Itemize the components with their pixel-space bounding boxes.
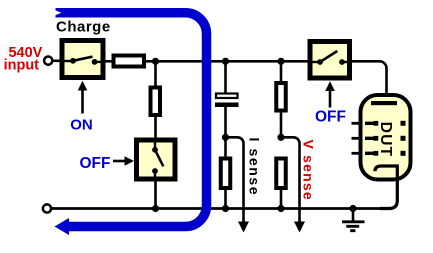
wire S3 to tube anode — [352, 61, 387, 102]
ON label with up arrow — [70, 81, 93, 134]
svg-text:I sense: I sense — [247, 138, 263, 197]
wire node A down to R2 — [154, 61, 157, 86]
junction node A — [152, 58, 159, 65]
ground junction — [349, 205, 356, 212]
tube cathode with lead to bottom rail — [375, 166, 397, 209]
switch S3 plate supply (box) — [310, 42, 350, 79]
resistor R1 horizontal — [114, 56, 145, 67]
svg-text:DUT: DUT — [377, 122, 394, 157]
OFF label with right arrow — [80, 155, 135, 172]
wire C1 down to I sense node — [224, 107, 227, 209]
svg-text:Charge: Charge — [56, 19, 111, 36]
junction on top rail at capacitor branch — [222, 58, 229, 65]
wire S2 down to bottom rail — [154, 179, 157, 209]
I sense tap wire with down arrow — [226, 137, 250, 232]
top rail wire from charge switch to right OFF switch — [97, 60, 309, 63]
wire R4 to node — [280, 111, 283, 139]
junction top rail at V sense branch — [277, 58, 284, 65]
tube grid row 2 — [352, 136, 406, 141]
junction on bottom rail under S2 — [152, 205, 159, 212]
bottom rail wire — [51, 207, 391, 210]
junction bottom rail under V branch — [277, 205, 284, 212]
resistor R5 divider bottom — [276, 159, 286, 189]
switch S1 charge (box) — [62, 41, 103, 78]
svg-text:OFF: OFF — [80, 155, 111, 172]
ground symbol — [342, 209, 365, 231]
svg-text:OFF: OFF — [315, 109, 346, 126]
OFF label with up arrow (plate switch) — [315, 81, 346, 125]
resistor R2 vertical — [151, 88, 161, 116]
tube V1 envelope — [361, 95, 411, 180]
wire down to R4 — [280, 61, 283, 82]
wire R2 to discharge switch — [154, 115, 157, 140]
junction V sense node — [277, 134, 284, 141]
resistor R4 divider top — [276, 83, 286, 111]
svg-text:ON: ON — [70, 117, 93, 134]
tube anode plate — [371, 101, 397, 105]
tube grid row 1 — [352, 121, 406, 126]
wire from input terminal to charge switch — [52, 59, 62, 62]
V sense tap wire with down arrow — [281, 137, 305, 232]
svg-text:V sense: V sense — [301, 140, 317, 201]
tube grid row 3 — [352, 151, 406, 156]
junction bottom rail under C1 branch — [222, 205, 229, 212]
switch S2 discharge (box) — [137, 140, 176, 179]
blue charge current path arrow — [55, 10, 207, 235]
wire R5 down to bottom rail — [280, 188, 283, 209]
resistor R3 I sense shunt — [221, 159, 231, 189]
wire down to capacitor C1 — [224, 61, 227, 93]
junction node below C1 — [222, 134, 229, 141]
capacitor C1 — [215, 94, 239, 108]
svg-text:input: input — [4, 57, 40, 73]
input terminal circle 540V — [44, 57, 52, 65]
bottom left terminal circle — [43, 204, 51, 212]
